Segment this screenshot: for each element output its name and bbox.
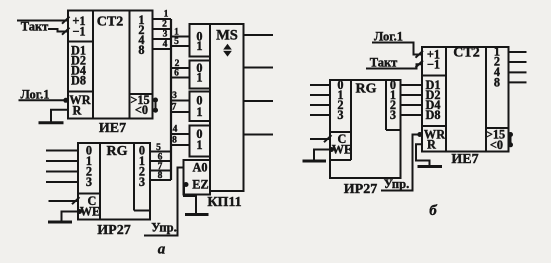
pin 2 out (138, 23, 144, 37)
svg-text:3: 3 (86, 175, 92, 189)
svg-text:5: 5 (156, 143, 161, 153)
svg-text:<0: <0 (490, 138, 503, 152)
wire WE to ground (a) (62, 209, 83, 221)
ground at R (b) (418, 165, 443, 168)
three-state output symbol (diamond) (222, 44, 234, 57)
svg-text:<0: <0 (135, 103, 148, 117)
pin D4 (b) (425, 98, 440, 112)
wire Такт to +1 (17, 17, 70, 24)
pin >15 (b) (486, 128, 505, 142)
label a (circuit a) (158, 242, 166, 258)
wire RG out 3 to D8 (401, 114, 423, 116)
pin D2 (71, 54, 86, 68)
pin 2 out (RG a) (139, 165, 145, 179)
wire EZ to ground (184, 182, 197, 214)
svg-text:1: 1 (164, 10, 169, 20)
wire bus tap 6 to MS section2 pin1 (171, 69, 190, 79)
pin 4 out (138, 33, 144, 47)
node Упр label (a) (151, 221, 176, 235)
pin D4 (71, 64, 86, 78)
svg-text:КП11: КП11 (207, 195, 241, 210)
wire data input 0 (RG b) (310, 84, 330, 86)
MS control box A0 EZ (184, 160, 211, 195)
wire WE to ground (b) (314, 147, 334, 160)
svg-text:ИР27: ИР27 (97, 223, 130, 238)
multiplexer U3 MS (КП11): main body (210, 24, 244, 191)
svg-text:3: 3 (337, 108, 343, 122)
label КП11 (207, 195, 241, 210)
wire Лог.1 to +1 (b) (372, 43, 423, 58)
wire data input 3 (RG b) (310, 114, 330, 116)
svg-text:3: 3 (163, 30, 168, 40)
wire C input (RG a) (49, 197, 80, 204)
pin 8 out (138, 43, 144, 57)
MS section 3 box (190, 92, 211, 122)
wire register out 2 to bus (label 7) (150, 162, 171, 172)
svg-text:ИЕ7: ИЕ7 (99, 121, 126, 136)
wire data input 0 (RG a) (46, 150, 78, 152)
wire R to ground (b) (416, 144, 430, 165)
pin 0 out (RG b) (390, 78, 396, 92)
svg-text:RG: RG (356, 82, 377, 97)
pin C (RG a) (88, 194, 97, 208)
label ИР27 (a) (97, 223, 130, 238)
svg-text:1: 1 (196, 39, 202, 53)
svg-text:8: 8 (494, 76, 500, 90)
wire counter out 8 to bus (153, 40, 172, 50)
ground at WE (b) (303, 160, 327, 163)
svg-text:6: 6 (174, 69, 179, 79)
svg-text:Такт: Такт (370, 56, 398, 70)
svg-text:−1: −1 (72, 25, 85, 39)
pin WE (RG b) (332, 143, 353, 157)
bus line (a) (170, 19, 172, 180)
label ИР27 (b) (344, 182, 377, 197)
pin 2 out (RG b) (390, 98, 396, 112)
svg-text:1: 1 (196, 71, 202, 85)
wire bus tap 5 to MS section1 pin1 (171, 37, 190, 47)
MS section 1 box (190, 24, 211, 57)
pin C (RG b) (338, 132, 347, 146)
wire counter out 1 to bus (153, 10, 172, 20)
pin >15 (130, 93, 149, 107)
pin WR (b) (424, 127, 445, 141)
wire data input 1 (RG a) (46, 160, 78, 162)
ground at R (a) (39, 121, 64, 124)
svg-text:1: 1 (174, 28, 179, 38)
wire MS output 4 (244, 134, 274, 136)
wire >15 <0 tie junction (b) (508, 132, 513, 147)
wire counter out 1 (b) (509, 51, 527, 53)
pin 2 in (RG b) (337, 98, 343, 112)
svg-text:WE: WE (80, 205, 101, 219)
counter U1 CT2 (ИЕ7) circuit a: body (68, 11, 153, 119)
node Упр label (b) (384, 177, 409, 191)
pin 3 out (RG b) (390, 108, 396, 122)
wire register out 1 to bus (label 6) (150, 153, 171, 163)
pin 0 out (RG a) (139, 144, 145, 158)
pin <0 (135, 103, 148, 117)
ground at EZ (185, 213, 209, 216)
pin R (b) (427, 137, 436, 151)
svg-text:ИР27: ИР27 (344, 182, 377, 197)
pin +1 (72, 14, 85, 28)
svg-text:CT2: CT2 (453, 46, 479, 61)
wire data input 2 (RG a) (46, 171, 78, 173)
svg-text:Такт: Такт (21, 20, 49, 34)
wire RG out 2 to D4 (401, 104, 423, 106)
svg-text:7: 7 (172, 103, 177, 113)
node Лог.1 label (a) (21, 88, 50, 102)
wire bus tap 4 to MS section4 pin0 (171, 125, 190, 135)
pin 3 in (RG b) (337, 108, 343, 122)
wire C input (RG b) (310, 135, 332, 142)
wire A0 to Упр (144, 168, 184, 236)
pin D1 (71, 44, 86, 58)
wire MS output 3 (244, 100, 274, 102)
svg-text:8: 8 (138, 43, 144, 57)
node Такт label (b) (370, 56, 398, 70)
svg-text:RG: RG (107, 144, 128, 159)
svg-text:3: 3 (390, 108, 396, 122)
pin 8 out (b) (494, 76, 500, 90)
pin -1 (72, 25, 85, 39)
svg-text:Упр.: Упр. (151, 221, 176, 235)
pin 1 out (138, 13, 144, 27)
pin 0 in (RG a) (86, 144, 92, 158)
MS section 2 box (190, 61, 211, 89)
pin +1 (b) (427, 48, 440, 62)
pin D1 (b) (425, 78, 440, 92)
label b (circuit b) (429, 203, 437, 219)
svg-text:EZ: EZ (192, 178, 208, 192)
wire bus tap 7 to MS section3 pin1 (171, 103, 190, 113)
pin 3 out (RG a) (139, 175, 145, 189)
pin 0 in (RG b) (337, 78, 343, 92)
ground at WE (a) (48, 221, 72, 224)
svg-text:R: R (427, 137, 436, 151)
register U4 RG (ИР27) circuit b: body (330, 80, 401, 178)
wire R to ground (51, 110, 68, 122)
pin D8 (71, 74, 86, 88)
wire RG out 1 to D2 (401, 94, 423, 96)
svg-text:8: 8 (158, 171, 163, 181)
wire counter out 4 (b) (509, 71, 527, 73)
label ИЕ7 (99, 121, 126, 136)
svg-text:8: 8 (172, 136, 177, 146)
wire Такт to -1 (b) (366, 61, 423, 69)
pin WR (69, 93, 90, 107)
svg-text:2: 2 (162, 20, 167, 30)
svg-text:1: 1 (196, 105, 202, 119)
wire counter out 2 (b) (509, 61, 527, 63)
wire register out 3 to bus (label 8) (150, 171, 171, 181)
svg-text:WE: WE (332, 143, 353, 157)
svg-text:5: 5 (174, 37, 179, 47)
svg-text:4: 4 (163, 40, 168, 50)
node Такт label (a) (21, 20, 49, 34)
wire bus tap 8 to MS section4 pin1 (171, 136, 190, 146)
svg-text:ИЕ7: ИЕ7 (451, 152, 478, 167)
pin 1 out (RG a) (139, 154, 145, 168)
pin R (73, 103, 82, 117)
svg-text:MS: MS (216, 28, 238, 44)
svg-text:3: 3 (172, 91, 177, 101)
pin D2 (b) (425, 88, 440, 102)
svg-text:3: 3 (139, 175, 145, 189)
wire Лог.1 to WR (19, 98, 69, 103)
wire register out 0 to bus (label 5) (150, 143, 171, 153)
svg-text:4: 4 (173, 125, 178, 135)
svg-text:−1: −1 (427, 57, 440, 71)
counter U5 CT2 (ИЕ7) circuit b: body (422, 46, 509, 152)
svg-text:1: 1 (196, 138, 202, 152)
svg-text:б: б (429, 203, 437, 219)
wire counter out 4 to bus (153, 30, 172, 40)
svg-text:Упр.: Упр. (384, 177, 409, 191)
wire Упр to WR (b) (381, 132, 422, 191)
wire bus tap 3 to MS section3 pin0 (171, 91, 190, 101)
svg-text:2: 2 (175, 59, 180, 69)
pin 2 out (b) (494, 55, 500, 69)
pin 4 out (b) (494, 65, 500, 79)
pin -1 (b) (427, 57, 440, 71)
svg-text:6: 6 (158, 153, 163, 163)
svg-text:а: а (158, 242, 166, 258)
wire data input 3 (RG a) (46, 181, 78, 183)
pin <0 (b) (490, 138, 503, 152)
wire Такт branch to -1 (48, 28, 70, 35)
wire bus tap 2 to MS section2 pin0 (171, 59, 190, 69)
wire data input 2 (RG b) (310, 104, 330, 106)
wire data input 1 (RG b) (310, 94, 330, 96)
MS section 4 box (190, 126, 211, 157)
label ИЕ7 (b) (451, 152, 478, 167)
svg-text:R: R (73, 103, 82, 117)
pin 1 in (RG a) (86, 154, 92, 168)
svg-text:A0: A0 (192, 161, 207, 175)
wire MS output 2 (244, 67, 274, 69)
svg-text:D8: D8 (425, 108, 440, 122)
node Лог.1 label (b) (374, 30, 403, 44)
pin 2 in (RG a) (86, 165, 92, 179)
wire counter out 8 (b) (509, 81, 527, 83)
wire counter out 2 to bus (153, 20, 172, 30)
pin 3 in (RG a) (86, 175, 92, 189)
pin 1 out (RG b) (390, 88, 396, 102)
svg-text:CT2: CT2 (97, 15, 123, 30)
wire >15 <0 tie junction (153, 98, 158, 113)
wire MS output 1 (244, 34, 274, 36)
svg-text:D8: D8 (71, 74, 86, 88)
register U2 RG (ИР27) circuit a: body (78, 143, 150, 220)
pin WE (RG a) (80, 205, 101, 219)
svg-text:Лог.1: Лог.1 (374, 30, 403, 44)
pin D8 (b) (425, 108, 440, 122)
wire RG out 0 to D1 (401, 84, 423, 86)
pin 1 out (b) (494, 45, 500, 59)
wire bus tap 1 to MS section1 pin0 (171, 28, 190, 38)
pin 1 in (RG b) (337, 88, 343, 102)
